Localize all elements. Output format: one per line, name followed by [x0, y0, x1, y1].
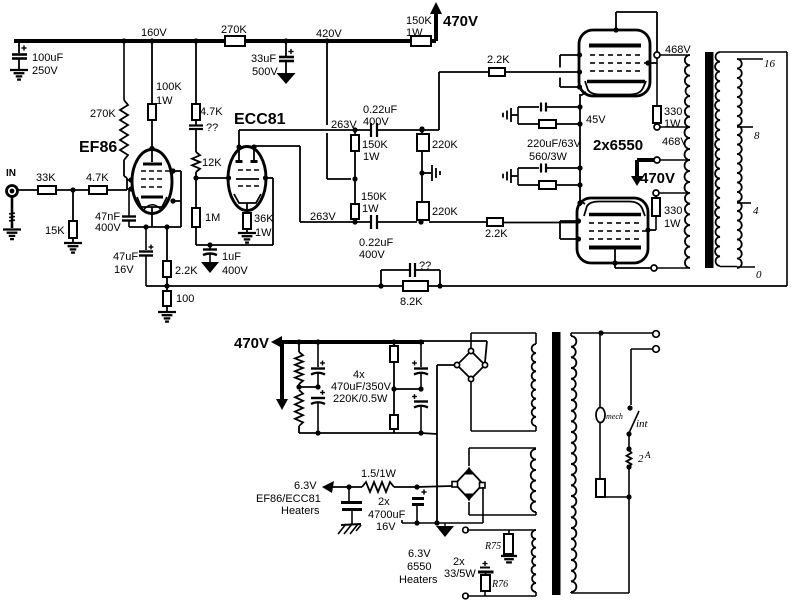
tube 6550 lower envelope [577, 198, 648, 263]
wire 15K to ground [72, 238, 74, 243]
6550 lower cathode boat [589, 213, 641, 217]
svg-text:??: ?? [419, 260, 431, 272]
node mains terminal 1 [653, 331, 660, 338]
svg-text:1W: 1W [363, 151, 380, 163]
resistor 220K/0.5W box1 [393, 342, 395, 346]
svg-text:400V: 400V [363, 116, 389, 128]
svg-text:2x: 2x [453, 556, 465, 568]
resistor 560/3W upper [518, 123, 539, 125]
wire rail to 470V arrow [431, 39, 436, 43]
ground (220K mid, sideways) [422, 172, 431, 174]
wire mains primary top [570, 333, 572, 336]
capacitor 47uF/16V [145, 227, 147, 250]
resistor 330 1W lower [655, 196, 657, 198]
OT primary coil s2 [660, 126, 690, 128]
node lower anode terminal [651, 265, 657, 271]
wire D2 minus down [482, 487, 484, 523]
OT core bar [705, 52, 714, 268]
resistor 220K/0.5W zz2 [296, 384, 301, 389]
wire D2 bottom to winding2 [468, 502, 470, 515]
node 45V [577, 104, 582, 109]
capacitor C 33uF/500V [288, 49, 293, 54]
wire fuse down [628, 467, 630, 497]
svg-text:220K/0.5W: 220K/0.5W [333, 393, 388, 405]
wire 2.2K to lower 6550 grid [503, 222, 578, 224]
svg-text:47uF: 47uF [113, 251, 138, 263]
svg-text:mech: mech [606, 412, 623, 421]
svg-text:16V: 16V [376, 521, 396, 533]
resistor 4.7K (input) [89, 186, 107, 194]
svg-text:1W: 1W [255, 227, 272, 239]
ECC81 cathode stem [246, 203, 248, 213]
wire D1 top to winding [470, 333, 472, 348]
wire B+ rail mid segment 420V [245, 39, 411, 43]
capacitor ?? (screen) [195, 120, 197, 125]
wire feedback line left [146, 285, 403, 287]
OT primary coil s4 [685, 193, 690, 268]
tube 6550 upper envelope [579, 30, 650, 96]
svg-text:220K: 220K [432, 206, 458, 218]
wire 420V feed down [326, 43, 328, 125]
ECC81 grid dashes [238, 169, 243, 171]
wire D1 minus vertical [437, 364, 454, 366]
ECC81 plate bars [238, 147, 240, 161]
wire 220K mid [421, 151, 423, 202]
svg-text:150K: 150K [362, 139, 388, 151]
resistor 270K zigzag [120, 100, 128, 160]
ground (15K) [64, 243, 82, 253]
svg-text:EF86: EF86 [79, 139, 117, 156]
wire thin 470V to bridge [424, 340, 487, 342]
svg-text:33/5W: 33/5W [444, 568, 476, 580]
svg-text:150K: 150K [406, 15, 432, 27]
switch int [627, 405, 632, 410]
svg-text:263V: 263V [331, 119, 357, 131]
resistor 150K 1W upper [351, 135, 359, 151]
node EF86 top pin [149, 146, 154, 151]
node UL tap terminal [656, 123, 658, 124]
svg-text:4.7K: 4.7K [86, 172, 109, 184]
resistor 15K [69, 221, 77, 238]
OT primary coil s3 [685, 160, 690, 193]
6550 lower grid dashes r2 [589, 230, 594, 232]
wire 1M down [195, 227, 197, 245]
tube ECC81 V2 envelope [228, 147, 266, 211]
6550 lower grid bracket [559, 221, 561, 239]
resistor 100K 1W wire [151, 43, 153, 104]
wire B+ rail left segment 160V [14, 39, 225, 43]
resistor R76 [481, 575, 490, 591]
6550 lower plate bar [589, 246, 641, 250]
wire 420V feed lower [326, 133, 328, 179]
capacitor 470uF d [418, 386, 423, 391]
wire OT bottom link [657, 267, 690, 269]
svg-text:45V: 45V [586, 114, 606, 126]
capacitor 470uF c [420, 342, 422, 367]
node EF86 grid pins [128, 177, 133, 182]
wire 15K drop [72, 190, 74, 221]
ground (PSU 0V, solid) [434, 520, 439, 525]
resistor 100K 1W [148, 104, 156, 120]
svg-text:1W: 1W [664, 218, 681, 230]
OT secondary top link [720, 51, 787, 53]
ground (R75) [508, 554, 510, 556]
mains secondary winding 1 [531, 344, 536, 426]
svg-text:2: 2 [638, 453, 644, 465]
wire 12K to grid node [195, 172, 197, 178]
mains core bar [552, 332, 561, 595]
svg-text:16V: 16V [114, 264, 134, 276]
ground (100uF) [10, 70, 28, 80]
node mains terminal 2 [653, 346, 660, 353]
wire heater to arrow [332, 486, 362, 488]
wire terminal2 to switch [631, 348, 652, 350]
6550 lower bottom pin [614, 249, 616, 268]
wire ECC81 left plate up [238, 130, 240, 147]
wire filter mid link A [299, 386, 318, 388]
component mech (oval) [599, 422, 601, 479]
resistor 100 (feedback) [164, 283, 169, 288]
capacitor ?? (feedback) [380, 270, 382, 286]
ground (100 ohm) [158, 312, 176, 322]
tap 0 [737, 266, 755, 268]
capacitor 0.22uF/400V upper [371, 123, 377, 137]
ground (36K) [238, 233, 256, 243]
ground (1uF, solid) [201, 262, 219, 273]
node heater terminal down [463, 593, 469, 599]
fuse 2A [628, 434, 630, 450]
capacitor 4700uF #1 [348, 487, 350, 501]
resistor 220K lower [417, 202, 429, 220]
OT primary coil s1 [660, 54, 690, 56]
EF86 top plate bar [143, 163, 162, 166]
resistor 2.2K (EF86 cathode) [166, 227, 168, 261]
capacitor 220uF/63V upper [517, 107, 519, 124]
svg-text:Heaters: Heaters [399, 574, 438, 586]
svg-text:330: 330 [664, 106, 682, 118]
6550 upper grid bracket [559, 55, 561, 68]
svg-text:330: 330 [664, 205, 682, 217]
6550 upper grid dashes r3 [590, 70, 595, 72]
svg-text:EF86/ECC81: EF86/ECC81 [256, 493, 321, 505]
wire to thermistor [600, 496, 629, 498]
wire rail to 33uF [285, 41, 287, 56]
ground cap (R76) [483, 561, 488, 566]
wire upper line to corner [377, 129, 439, 131]
svg-text:Heaters: Heaters [281, 505, 320, 517]
EF86 grid dashes row2 [141, 178, 146, 180]
svg-text:2.2K: 2.2K [487, 54, 510, 66]
svg-text:1M: 1M [205, 212, 220, 224]
svg-text:??: ?? [206, 122, 218, 134]
wire secondary right vertical [786, 52, 788, 286]
svg-text:16: 16 [764, 58, 776, 70]
wire 100K to EF86 plate [151, 120, 153, 162]
tube EF86 V1 envelope [132, 150, 172, 214]
svg-text:R75: R75 [484, 541, 501, 552]
svg-text:400V: 400V [222, 265, 248, 277]
wire heater line down [467, 595, 536, 597]
wire plate to OT top [616, 11, 657, 13]
node lower UL terminal [653, 190, 659, 196]
wire EF86 screen link [173, 170, 181, 172]
svg-text:int: int [636, 418, 649, 430]
thermistor box [596, 479, 605, 497]
resistor 330 1W upper [653, 106, 661, 123]
OT secondary coil strand A [715, 52, 720, 266]
svg-text:220K: 220K [432, 139, 458, 151]
svg-text:6550: 6550 [407, 561, 431, 573]
resistor 2.2K lower [487, 218, 503, 226]
svg-text:470V: 470V [443, 13, 478, 30]
EF86 grid dashes row1 [141, 170, 146, 172]
svg-text:IN: IN [6, 168, 16, 179]
wire heater line up [467, 529, 536, 531]
resistor R75 [508, 530, 510, 534]
node 6.3V arrow left [322, 481, 334, 493]
svg-text:0.22uF: 0.22uF [359, 237, 394, 249]
resistor 150K 1W (rail series) [411, 36, 431, 46]
svg-text:1W: 1W [664, 118, 681, 130]
EF86 grid dashes row3 [141, 186, 146, 188]
svg-text:263V: 263V [310, 211, 336, 223]
6550 lower grid dashes r1 [589, 222, 594, 224]
ECC81 cathode boat [234, 194, 261, 203]
wire 4.7K to EF86 grid [107, 189, 127, 191]
6550 upper plate bar [589, 44, 641, 48]
svg-text:250V: 250V [32, 65, 58, 77]
wire 33K to 4.7K [56, 189, 89, 191]
wire to 12K [195, 129, 197, 152]
6550 upper top pin [615, 12, 617, 30]
svg-text:4700uF: 4700uF [368, 509, 406, 521]
wire EF86 cathode box [129, 226, 181, 228]
wire lower line to 220K [377, 221, 417, 223]
svg-text:4.7K: 4.7K [200, 106, 223, 118]
svg-text:1W: 1W [406, 27, 423, 39]
svg-text:ECC81: ECC81 [234, 111, 286, 128]
svg-text:160V: 160V [141, 27, 167, 39]
resistor 220K upper [417, 134, 429, 151]
svg-text:A: A [644, 450, 651, 460]
capacitor 470uF b [315, 384, 320, 389]
svg-text:8.2K: 8.2K [400, 296, 423, 308]
bridge D2 terminals [465, 467, 474, 475]
wire corner up to 2.2K [438, 72, 440, 130]
node 470V arrow down (CT) [637, 158, 654, 162]
svg-text:100uF: 100uF [32, 52, 63, 64]
wire 263V line upper [239, 129, 371, 131]
EF86 cathode boat [137, 197, 167, 207]
svg-text:36K: 36K [254, 213, 274, 225]
mains secondary winding 2 [531, 449, 536, 512]
bridge D1 terminals [468, 348, 473, 353]
wire primary bottom [628, 497, 630, 593]
capacitor 4700uF #2 [421, 489, 426, 494]
node 470V arrow down (PSU) [280, 343, 284, 400]
resistor 36K 1W [243, 213, 251, 229]
capacitor C 100uF/250V [18, 41, 20, 53]
ground (33uF, solid) [277, 73, 296, 84]
svg-text:150K: 150K [361, 191, 387, 203]
wire D1 bottom to winding [470, 382, 472, 431]
wire heater 6.3V line [417, 486, 452, 487]
svg-text:33uF: 33uF [251, 53, 276, 65]
svg-text:100: 100 [176, 293, 194, 305]
svg-text:270K: 270K [90, 108, 116, 120]
ground (lower RC, sideways) [503, 169, 511, 183]
capacitor 1uF/400V [209, 245, 211, 249]
svg-text:R76: R76 [491, 579, 508, 590]
svg-text:12K: 12K [202, 157, 222, 169]
wire to lower 2.2K [429, 221, 487, 223]
resistor 33K [38, 186, 56, 194]
svg-text:1uF: 1uF [222, 251, 241, 263]
wire ECC81 right grid link [266, 177, 274, 179]
node 470V arrow up [434, 12, 438, 41]
capacitor 470uF a [317, 342, 319, 367]
wire grid node to ECC81 [196, 177, 228, 179]
svg-text:6.3V: 6.3V [294, 480, 317, 492]
capacitor 0.22uF/400V lower [371, 215, 377, 229]
svg-text:0.22uF: 0.22uF [363, 104, 398, 116]
wire 2.2K to 6550 grid [505, 71, 578, 73]
svg-text:470V: 470V [640, 170, 675, 187]
mains primary winding [571, 336, 576, 592]
EF86 grid bracket [126, 178, 128, 190]
wire common cathode line [579, 94, 581, 206]
wire to upper 2.2K [439, 71, 489, 73]
resistor 270K (rail series) [225, 36, 245, 46]
resistor 270K (grid leak) wire from rail [123, 41, 125, 100]
6550 upper cathode boat [587, 80, 645, 84]
resistor 8.2K [403, 281, 428, 291]
ground (upper RC, sideways) [503, 108, 511, 122]
wire feedback line right [428, 285, 787, 287]
node CT terminal [654, 157, 660, 163]
resistor 220K/0.5W box2 [391, 386, 396, 391]
node ECC81 plate pins [236, 144, 241, 149]
resistor 2.2K upper [489, 68, 505, 76]
tap 8 [737, 126, 753, 128]
svg-text:6.3V: 6.3V [408, 548, 431, 560]
resistor 220K/0.5W zz1 [298, 342, 300, 352]
wire filter mid link B [394, 388, 421, 390]
6550 upper grid dashes r2 [590, 62, 595, 64]
resistor 1M [195, 178, 197, 208]
svg-text:2x6550: 2x6550 [593, 137, 643, 154]
svg-text:2.2K: 2.2K [485, 228, 508, 240]
ground (heater, hatched) [341, 524, 361, 525]
OT secondary coil strand B [737, 59, 742, 268]
resistor 4.7K (screen feed) wire [195, 43, 197, 104]
mains secondary winding 3 [532, 530, 536, 592]
svg-text:560/3W: 560/3W [529, 151, 568, 163]
svg-text:500V: 500V [252, 66, 278, 78]
node 470V arrow left [271, 336, 282, 348]
svg-text:1W: 1W [156, 95, 173, 107]
wire ECC81 right plate over [253, 146, 255, 147]
svg-text:100K: 100K [156, 81, 182, 93]
bridge rectifier D2 diamond [455, 469, 483, 499]
svg-text:8: 8 [754, 130, 760, 142]
svg-text:4: 4 [753, 205, 759, 217]
svg-text:2x: 2x [378, 496, 390, 508]
ground (input jack) [3, 230, 21, 240]
svg-text:400V: 400V [359, 249, 385, 261]
wire filter bottom [299, 432, 421, 434]
resistor 560/3W lower [518, 184, 539, 186]
node heater terminal up [463, 527, 469, 533]
svg-text:2.2K: 2.2K [175, 265, 198, 277]
6550 upper grid dashes r1 [590, 54, 595, 56]
svg-text:270K: 270K [221, 24, 247, 36]
resistor 1.5/1W zigzag [362, 482, 394, 492]
capacitor 47nF/400V [128, 190, 130, 216]
tap 16 [737, 58, 763, 60]
wire D2 top to winding2 [468, 448, 470, 466]
svg-text:470V: 470V [234, 335, 269, 352]
node EF86 screen pins [170, 168, 175, 173]
wire 263V line lower [300, 221, 371, 223]
wire mech up [599, 333, 601, 408]
resistor 12K zigzag [192, 152, 200, 172]
node ECC81 grid right [263, 175, 268, 180]
input jack J1 [7, 186, 18, 197]
wire plate to OT bottom [615, 267, 651, 269]
svg-text:420V: 420V [316, 28, 342, 40]
svg-text:400V: 400V [95, 222, 121, 234]
wire screen stub [648, 62, 657, 64]
node lower cathode junction [577, 165, 582, 170]
svg-text:0: 0 [756, 269, 762, 281]
capacitor 220uF/63V lower [517, 168, 519, 185]
EF86 cathode stem [151, 207, 153, 227]
svg-text:1W: 1W [362, 203, 379, 215]
svg-text:4x: 4x [353, 369, 365, 381]
wire CT to terminal [660, 159, 690, 161]
6550 lower grid dashes r3 [589, 238, 594, 240]
wire cathode return y245 [196, 244, 273, 246]
svg-text:220uF/63V: 220uF/63V [527, 138, 581, 150]
svg-text:470uF/350V: 470uF/350V [331, 381, 392, 393]
wire jack to 33K [17, 189, 38, 191]
node anode terminal (circle) [654, 52, 660, 58]
OT secondary bottom link [720, 266, 737, 268]
wire 270K to EF86 grid [123, 160, 125, 176]
svg-text:33K: 33K [36, 172, 56, 184]
tap 4 [737, 202, 751, 204]
svg-text:1.5/1W: 1.5/1W [361, 468, 396, 480]
resistor 4.7K (screen) [192, 104, 200, 120]
wire lower screen stub [655, 216, 657, 230]
bridge rectifier D1 diamond [457, 351, 485, 379]
svg-text:15K: 15K [45, 225, 65, 237]
